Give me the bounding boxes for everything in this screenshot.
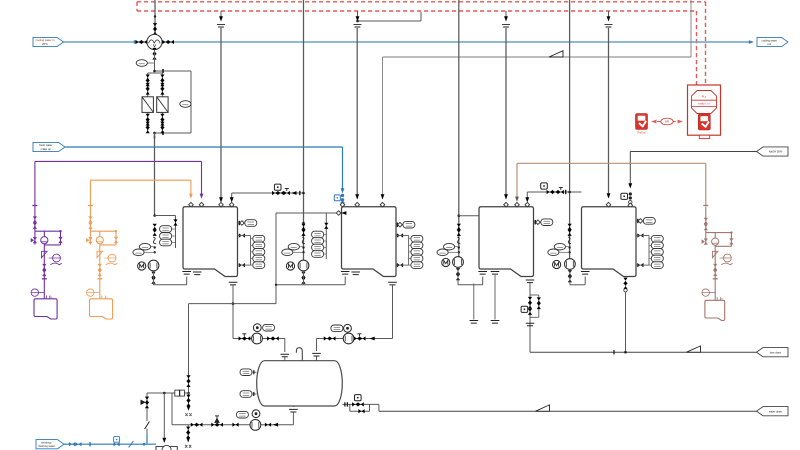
level instrument at T3 right top [534, 221, 540, 223]
valve pair below pump (tan) [713, 264, 717, 276]
recirculation pump P4 [565, 259, 576, 270]
junction on T4 feed line [568, 191, 571, 194]
instrument stack drop [175, 216, 177, 249]
motor M4 [553, 260, 561, 268]
NaOH supply pipe [630, 151, 756, 153]
loop return riser [584, 277, 586, 285]
slope mark [549, 51, 563, 57]
arrow into T2 [355, 194, 359, 199]
station valve [528, 297, 532, 303]
tap [302, 251, 304, 253]
tick [42, 278, 47, 280]
spray control line into T1 [232, 192, 304, 194]
valve pair on recirc feed [153, 224, 157, 230]
three-way valve (orange) [89, 231, 91, 244]
hose/expansion symbol [153, 237, 156, 244]
valve pair under pump [456, 268, 460, 274]
tick [346, 402, 348, 406]
nozzle diamond [525, 202, 530, 207]
upper tap valve [637, 233, 643, 237]
upper tap [636, 235, 649, 237]
filter F2 [157, 97, 168, 113]
svg-text:lyes drain: lyes drain [770, 350, 782, 354]
arrow into box [162, 438, 166, 443]
junction [356, 20, 359, 23]
flow arrow [370, 337, 375, 341]
arrow into T1 [219, 197, 223, 202]
dosing circuit (orange) riser [89, 205, 91, 231]
instrument T1-L3 [253, 249, 265, 256]
instrument circle at dosing tank (tan) [702, 289, 709, 296]
instrument TI [437, 249, 448, 256]
tap line [566, 246, 570, 248]
pipe: feed to T2 recirculation pump [303, 0, 305, 261]
instrument T2-L2 [411, 242, 423, 249]
vent pipe crook [296, 348, 302, 361]
loop return riser [344, 277, 346, 285]
tank bottom connection [581, 272, 590, 275]
instrument LI2 on T2 stack [312, 238, 324, 245]
pipe: feed to tank T4 top [608, 28, 610, 198]
tap line [324, 253, 327, 255]
blind tick [162, 131, 164, 135]
hand valve with T stem [558, 190, 564, 194]
discharge valve pair [324, 336, 336, 340]
injector symbol (orange) [97, 251, 103, 257]
vessel nozzle [312, 353, 321, 356]
upper tap [396, 235, 409, 237]
instrument T2-L4 [411, 255, 423, 262]
tap line [144, 251, 155, 253]
drop to vessel [316, 339, 318, 352]
instrument (tan) [724, 254, 732, 262]
station bypass leg [538, 295, 540, 317]
instrument TI [282, 249, 293, 256]
signal link arrows [652, 121, 682, 123]
pump P8 [252, 333, 263, 344]
outlet jog down [378, 404, 380, 411]
drinking water tie-in [146, 435, 148, 444]
junction [154, 15, 156, 17]
nozzle diamond overflow T2 [380, 202, 385, 207]
loop bottom pipe [570, 284, 585, 286]
valve pair under pump [151, 272, 155, 278]
strainer vent mark [153, 44, 156, 47]
vessel nozzle [281, 354, 290, 357]
purple supply pipe [35, 160, 202, 162]
station valve [528, 302, 532, 308]
tick [565, 190, 567, 194]
valve pair on recirc feed [457, 224, 461, 230]
instrument tap [147, 62, 154, 64]
valve pair [153, 23, 157, 35]
tap [154, 246, 156, 248]
valve pair (tan) [704, 218, 708, 231]
junction [153, 132, 156, 135]
svg-text:out: out [767, 42, 771, 46]
valve pair [191, 423, 203, 427]
tap line [409, 264, 411, 266]
loop bottom pipe [154, 284, 187, 286]
tap line [409, 244, 411, 246]
svg-text:cooling water in: cooling water in [36, 38, 55, 42]
valve [232, 423, 238, 427]
three way valve [211, 423, 223, 427]
flush pump P10 [250, 420, 261, 431]
instrument T4-L4 [651, 255, 663, 262]
valve [324, 223, 328, 229]
instrument circle at dosing tank (orange) [87, 289, 94, 296]
T3 drain control station [530, 294, 539, 296]
tank T3 (washing tank) [479, 207, 534, 277]
flush pump suction header [172, 424, 293, 426]
nozzle diamond [628, 203, 633, 208]
injector symbol (tan) [712, 251, 718, 257]
loop return riser [186, 277, 188, 285]
tank T4 (washing tank) [582, 207, 637, 277]
PLC cabinet (red) [688, 85, 721, 135]
instrument T2-L5 [411, 262, 423, 269]
pump bypass branch (orange) [115, 231, 117, 245]
tap line [409, 258, 411, 260]
flag: cooling water in [33, 37, 64, 46]
hose/expansion symbol [302, 237, 305, 244]
valve pair on recirc feed [568, 224, 572, 230]
svg-text:drinking /: drinking / [41, 440, 52, 444]
filter bypass loop [155, 70, 192, 72]
spray control line T3 - T4 [527, 191, 581, 193]
tap line [649, 264, 651, 266]
svg-text:SIMATIC S7: SIMATIC S7 [698, 103, 711, 106]
dosing pump (purple) [43, 231, 45, 299]
drain flange [526, 323, 535, 326]
dosing header [35, 230, 61, 232]
valve pair filter F1 inlet [146, 75, 150, 87]
control valve (blue) [114, 437, 120, 443]
instrument T4-L5 [651, 262, 663, 269]
instrument LI2 on T1 stack [160, 233, 172, 240]
signal break symbol [502, 25, 510, 27]
T3 bottom drain riser [526, 280, 535, 283]
svg-text:VD: VD [105, 297, 108, 299]
pipe: feed to tank T1 top [220, 28, 222, 202]
recirculation pump P2 [298, 260, 309, 271]
vessel bottom drain [289, 409, 298, 412]
control valve [528, 309, 532, 315]
signal arrow [219, 16, 223, 21]
instrument T4-L2 [651, 242, 663, 249]
valve pair (orange) [88, 216, 92, 229]
svg-text:ProTool: ProTool [637, 132, 646, 135]
pump P9 [343, 333, 354, 344]
valve [173, 219, 177, 225]
signal arrow [356, 16, 360, 21]
level instrument at T4 right top [636, 220, 642, 222]
cooling water header (light blue) [63, 41, 750, 43]
tap [568, 246, 570, 248]
control valve CV3 [547, 190, 559, 194]
tap line [172, 228, 176, 230]
tap line [649, 238, 651, 240]
svg-text:PLc: PLc [702, 95, 707, 99]
standpipe [648, 236, 650, 266]
tap line [324, 240, 327, 242]
filter F1 [142, 97, 153, 113]
instrument LI3 on T2 stack [312, 244, 324, 251]
nozzle diamond [199, 202, 204, 207]
tank vents [46, 296, 50, 299]
purple riser upper [34, 161, 36, 205]
upper tap valve [397, 233, 403, 237]
svg-text:fresh water: fresh water [39, 143, 52, 147]
nozzle diamond on T4 [606, 202, 611, 207]
valve [265, 423, 271, 427]
tank bottom connection [478, 272, 487, 275]
instrument T1-L2 [253, 242, 265, 249]
tick [713, 278, 718, 280]
valve ball [629, 196, 632, 199]
drain to sewer box drop [163, 392, 166, 395]
signal bus riser left [136, 2, 138, 11]
valve pair [186, 427, 190, 439]
level instrument at T2 right top [396, 224, 402, 226]
tick [344, 402, 346, 406]
slope mark [536, 405, 550, 411]
standpipe [408, 236, 410, 266]
blind nozzle [351, 272, 360, 275]
instrument PI [288, 243, 299, 250]
nozzle diamond on T2 [355, 202, 360, 207]
T2 outer loop pipe [275, 213, 277, 304]
loop bottom pipe [458, 284, 483, 286]
dosing tank (orange) [90, 299, 113, 319]
tick [703, 205, 708, 207]
tan supply pipe [517, 162, 706, 164]
nozzle diamond [229, 202, 234, 207]
signal break symbol [217, 25, 225, 27]
svg-text:MPI: MPI [665, 122, 669, 124]
valve stem [359, 334, 361, 337]
vessel level instrument upper [240, 369, 252, 376]
instrument [263, 324, 275, 331]
vessel level instrument lower [240, 391, 252, 398]
orange supply pipe [90, 179, 190, 181]
HMI device icon in cabinet [698, 114, 710, 130]
tap line [649, 251, 651, 253]
horizontal water vessel V1 [257, 361, 343, 406]
sampler symbol (tan) [721, 263, 733, 265]
flow arrow [273, 423, 278, 427]
instrument PI [139, 243, 150, 250]
arrow into T2 side [341, 211, 346, 215]
injector symbol (purple) [42, 251, 48, 257]
hose/expansion symbol [568, 237, 571, 244]
lower tap valve [239, 263, 245, 267]
tap line [649, 258, 651, 260]
instrument FI [136, 60, 147, 67]
tap line [251, 238, 253, 240]
flush branch header [189, 303, 277, 305]
control valve fresh water (blue) [334, 195, 340, 201]
svg-text:water drain: water drain [769, 409, 783, 413]
tank bottom connection [341, 272, 350, 275]
svg-text:25°C: 25°C [42, 42, 48, 46]
flag: fresh water in [33, 142, 65, 151]
motor M2 [286, 262, 294, 270]
PLC cabinet tab [699, 135, 709, 138]
pump discharge down [569, 269, 571, 284]
corner dot [115, 230, 117, 232]
corner dot [730, 231, 732, 233]
isolation valve pair right of strainer [162, 40, 174, 44]
tick [89, 442, 91, 446]
instrument PI [444, 243, 455, 250]
valve pair on recirc feed [301, 224, 305, 230]
T1 bottom drain riser [229, 282, 238, 285]
tan riser upper [705, 163, 707, 206]
pipe: overflow line drop to T2 [382, 57, 384, 199]
three-way valve on fresh water riser [146, 393, 148, 418]
level instrument at T1 right top [238, 222, 244, 224]
instrument T1-L1 [253, 235, 265, 242]
sampler symbol (purple) [50, 263, 62, 265]
tick [32, 205, 37, 207]
instrument T4-L1 [651, 235, 663, 242]
instrument tap [709, 292, 715, 294]
flow arrow [134, 40, 139, 44]
control valve [352, 402, 364, 406]
valve pair filter F1 outlet [146, 114, 150, 126]
valve pair below strainer [152, 48, 156, 60]
tap line [455, 246, 459, 248]
signal bus: red dashed control line upper [137, 1, 706, 3]
three-way valve (purple) [34, 231, 36, 244]
drop to vessel [284, 339, 286, 353]
fresh water drop to T2 [342, 147, 344, 189]
instrument LI1 on T2 stack [312, 231, 324, 238]
tap [458, 246, 460, 248]
bypass valve [537, 297, 541, 303]
standpipe [250, 236, 252, 266]
pump discharge down [153, 271, 155, 285]
tank T2 (washing tank) [342, 207, 397, 277]
drain arrow [186, 437, 190, 442]
bypass right leg [369, 404, 371, 411]
flush system drop pipe [186, 375, 190, 387]
drain drop 2 from flush suction line [187, 425, 189, 437]
loop return riser [482, 277, 484, 285]
recirculation pump P3 [453, 257, 464, 268]
lower tap valve [397, 263, 403, 267]
instrument PI on bypass [180, 101, 191, 108]
junction [624, 351, 627, 354]
signal drop to PLC right [705, 2, 707, 85]
motor M1 [138, 262, 146, 270]
dosing tank (tan) [705, 300, 725, 320]
loop bottom pipe [304, 284, 346, 286]
pump discharge down [303, 271, 305, 285]
svg-text:VD: VD [49, 297, 52, 299]
dosing circuit (purple) riser [34, 205, 36, 231]
drain arrow [187, 406, 191, 411]
tap line [172, 235, 176, 237]
valve pair [160, 83, 164, 95]
tap line [251, 251, 253, 253]
solenoid valve [175, 390, 180, 396]
instrument (purple) [53, 254, 61, 262]
dosing circuit (tan) riser [705, 207, 707, 233]
drinking water pipe [64, 443, 156, 445]
valve handle [358, 333, 362, 335]
arrow into T1 [230, 197, 234, 202]
pipe: feed to tank T3 top [505, 28, 507, 199]
arrow [628, 183, 632, 188]
T3 branch header [459, 215, 479, 217]
T4 bottom drain riser [623, 278, 627, 284]
junction [153, 70, 156, 73]
instrument with dot [253, 324, 261, 332]
control valve positioner CV3 [541, 183, 548, 189]
remote HMI device icon [636, 114, 648, 130]
arrow [200, 194, 204, 199]
signal drop to PLC left [696, 11, 698, 85]
check valve (blue) [129, 441, 134, 448]
pump bypass branch (tan) [730, 233, 732, 247]
tap line [172, 242, 176, 244]
junction [153, 214, 156, 217]
tick below filter station [154, 136, 156, 139]
fresh water pipe [65, 146, 343, 148]
instrument [236, 411, 248, 418]
T2 branch header [276, 212, 338, 214]
tank T1 (washing tank) [183, 207, 238, 277]
strainer internals [148, 40, 160, 44]
bypass valve [358, 409, 364, 413]
instrument (orange) [108, 254, 116, 262]
tap [154, 251, 156, 253]
signal arrow [607, 16, 611, 21]
valve pair filter F2 inlet [160, 75, 164, 87]
suction valve pair [354, 336, 366, 340]
tap line [251, 244, 253, 246]
instrument [331, 325, 343, 332]
control valve positioner [355, 395, 362, 401]
pipe down from strainer [154, 50, 156, 71]
tap line [649, 244, 651, 246]
tap [458, 251, 460, 253]
control valve positioner CV1 [274, 184, 281, 190]
dosing header [706, 232, 732, 234]
valve pair (purple) [33, 216, 37, 229]
corner dot [59, 230, 61, 232]
NaOH drop to T4 [629, 152, 631, 185]
valve pair [146, 122, 150, 134]
hand valve with T stem [284, 191, 290, 195]
flow arrow [291, 191, 296, 195]
lower tap [396, 264, 409, 266]
T2 bottom drain riser [388, 282, 397, 285]
instrument T1-L4 [253, 255, 265, 262]
signal tap stem x=608.5 [608, 11, 610, 17]
flag: lye drain [757, 348, 789, 357]
pipe: feed to T4 recirculation pump [569, 0, 571, 259]
tap [302, 246, 304, 248]
instrument T4-L3 [651, 249, 663, 256]
svg-text:make up: make up [41, 147, 52, 151]
lower tap [636, 264, 649, 266]
signal break symbol [605, 25, 613, 27]
lower tap valve [637, 263, 643, 267]
